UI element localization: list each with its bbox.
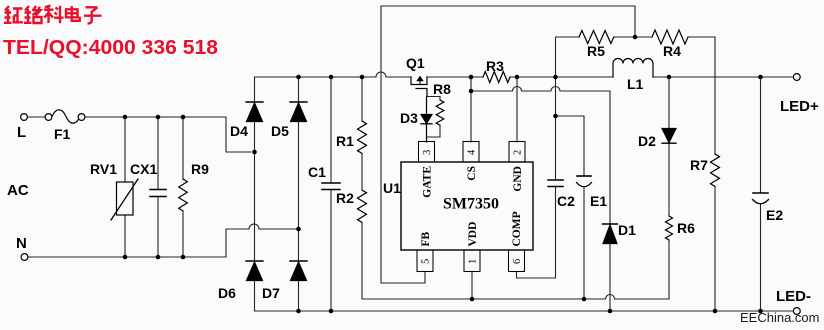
svg-text:1: 1 <box>468 259 479 264</box>
inductor L1 <box>613 59 653 78</box>
svg-text:COMP: COMP <box>511 211 523 246</box>
svg-text:R6: R6 <box>677 220 695 236</box>
pin 2 box <box>509 142 525 163</box>
node R9 top <box>181 115 186 120</box>
wire RV1 branch <box>124 117 126 257</box>
capacitor E2 electrolytic <box>753 192 768 194</box>
wire N input <box>28 229 249 257</box>
wire GND pin2 to rail <box>516 77 518 142</box>
svg-text:L1: L1 <box>627 76 644 92</box>
svg-text:D6: D6 <box>218 285 236 301</box>
svg-text:N: N <box>16 235 27 252</box>
diode D1 <box>603 223 618 225</box>
resistor R1 <box>358 121 367 153</box>
transistor Q1 (mosfet) <box>411 77 427 97</box>
node CS line <box>469 89 474 94</box>
svg-text:Q1: Q1 <box>406 55 425 71</box>
svg-text:LED+: LED+ <box>780 98 819 115</box>
svg-text:2: 2 <box>513 150 524 155</box>
wire VDD pin1 down <box>471 272 473 300</box>
wire R7 branch <box>714 37 716 311</box>
node L1 D2 <box>667 75 672 80</box>
wire D2 R6 branch <box>668 77 670 299</box>
node E2 bottom <box>758 309 763 314</box>
node RV1 bottom <box>123 255 128 260</box>
svg-text:U1: U1 <box>383 180 401 196</box>
wire E2 branch <box>760 77 762 311</box>
node E1 top <box>553 114 558 119</box>
resistor R2 <box>358 190 367 222</box>
svg-text:E2: E2 <box>766 207 783 223</box>
diode D4 <box>246 101 263 103</box>
wire L input <box>28 116 46 118</box>
svg-text:AC: AC <box>7 182 29 199</box>
svg-text:R9: R9 <box>191 161 209 177</box>
svg-text:RV1: RV1 <box>90 161 117 177</box>
svg-text:GND: GND <box>512 166 524 192</box>
wire top rail <box>255 72 412 77</box>
svg-text:F1: F1 <box>54 126 71 142</box>
wire rail R3 to L1 <box>510 76 613 78</box>
wire F1 to bridge <box>85 117 251 152</box>
wire CX1 branch <box>157 117 159 257</box>
node R3 right <box>515 75 520 80</box>
wire rail L1 to LED+ <box>653 76 794 78</box>
node C1 top <box>329 75 334 80</box>
capacitor CX1 <box>150 190 166 197</box>
pin 6 box <box>509 250 525 272</box>
terminal LED- <box>793 308 800 315</box>
resistor R5 <box>579 31 614 44</box>
svg-text:TEL/QQ:4000 336 518: TEL/QQ:4000 336 518 <box>3 37 218 59</box>
fuse F1 <box>52 110 80 124</box>
node E2 top <box>758 75 763 80</box>
svg-text:R7: R7 <box>690 157 708 173</box>
wire GATE pin3 to D3/R8 <box>427 97 441 143</box>
wire R5 left lead down to C2 node <box>556 37 636 180</box>
pin 5 box <box>417 250 433 272</box>
svg-text:R2: R2 <box>336 190 354 206</box>
resistor R7 <box>711 154 720 186</box>
node CX1 top <box>156 115 161 120</box>
node D1 bottom <box>608 309 613 314</box>
svg-text:LED-: LED- <box>776 288 811 305</box>
pin 3 box <box>419 142 435 163</box>
svg-text:CX1: CX1 <box>130 161 157 177</box>
svg-text:5: 5 <box>421 259 432 264</box>
node VDD gnd <box>470 297 475 302</box>
svg-text:R5: R5 <box>587 43 605 59</box>
wire C2 to COMP pin6 <box>517 187 556 279</box>
resistor R9 <box>179 179 188 211</box>
node F1-RV1 <box>123 115 128 120</box>
svg-text:SM7350: SM7350 <box>443 196 499 213</box>
node C1 bottom <box>329 309 334 314</box>
wire left bridge branch <box>254 77 256 311</box>
node C2 rail <box>553 75 558 80</box>
node D5 top <box>296 75 301 80</box>
node CS rail <box>469 75 474 80</box>
svg-text:R1: R1 <box>336 133 354 149</box>
diode D5 <box>290 101 307 103</box>
wire rail Q1 to R3 <box>427 76 483 78</box>
wire C1 branch <box>330 77 332 311</box>
terminal LED+ <box>793 74 800 81</box>
resistor R3 <box>483 72 510 83</box>
svg-text:6: 6 <box>512 259 523 264</box>
wire top feedback loop (R5R4 junction to FB pin5) <box>381 6 635 283</box>
svg-text:D5: D5 <box>271 123 289 139</box>
svg-text:EEChina.com: EEChina.com <box>740 310 819 325</box>
wire R9 branch <box>182 117 184 257</box>
diode D6 <box>246 260 263 262</box>
node R9 bottom <box>181 255 186 260</box>
svg-text:C1: C1 <box>308 164 326 180</box>
svg-text:4: 4 <box>467 149 478 155</box>
diode D3 <box>426 97 428 143</box>
node R7 bottom <box>713 309 718 314</box>
wire right bridge branch <box>298 77 300 311</box>
svg-text:D2: D2 <box>638 133 656 149</box>
svg-text:R4: R4 <box>663 43 681 59</box>
wire R4 leads <box>635 36 715 38</box>
node R1 top <box>360 75 365 80</box>
pin 1 box <box>464 250 480 272</box>
svg-text:CS: CS <box>466 166 478 181</box>
svg-text:L: L <box>17 124 26 141</box>
terminal N <box>21 254 28 261</box>
terminal L <box>21 114 28 121</box>
node L bridge <box>252 150 257 155</box>
wire CS net (pin4 up to rail, and across to D1 with hops) <box>471 77 610 142</box>
node E1 bottom <box>582 297 587 302</box>
capacitor E1 electrolytic <box>577 175 591 177</box>
varistor RV1 <box>117 182 134 215</box>
svg-text:D1: D1 <box>618 222 636 238</box>
svg-text:E1: E1 <box>590 193 607 209</box>
capacitor C2 <box>548 180 563 187</box>
op-amp U1 IC body SM7350 <box>401 162 533 250</box>
svg-text:D4: D4 <box>230 123 248 139</box>
capacitor C1 <box>322 183 340 190</box>
node CX1 bottom <box>156 255 161 260</box>
wire D1 branch <box>609 91 611 311</box>
wire E1 branch <box>556 116 585 299</box>
svg-text:D7: D7 <box>262 285 280 301</box>
resistor R8 <box>436 100 444 125</box>
node D7 bottom <box>296 309 301 314</box>
resistor R6 <box>666 216 673 240</box>
svg-text:3: 3 <box>422 150 433 155</box>
svg-text:R3: R3 <box>486 58 504 74</box>
svg-text:FB: FB <box>420 231 432 246</box>
diode D7 <box>290 260 307 262</box>
svg-text:D3: D3 <box>400 110 418 126</box>
node R5 R4 <box>633 35 638 40</box>
wire R1 R2 branch <box>361 77 363 190</box>
wire N node to right bridge branch (hop over left branch) <box>249 224 298 229</box>
diode D2 <box>662 129 676 143</box>
wire inner ground rail y299 <box>362 223 669 299</box>
company name (CJK strokes drawn) <box>4 6 102 24</box>
resistor R4 <box>652 30 688 44</box>
wire bottom rail <box>255 310 794 312</box>
pin 4 box <box>463 142 479 163</box>
svg-text:GATE: GATE <box>422 166 434 198</box>
svg-text:C2: C2 <box>557 193 575 209</box>
node N bridge <box>296 227 301 232</box>
svg-text:VDD: VDD <box>467 222 479 247</box>
svg-text:R8: R8 <box>433 81 451 97</box>
